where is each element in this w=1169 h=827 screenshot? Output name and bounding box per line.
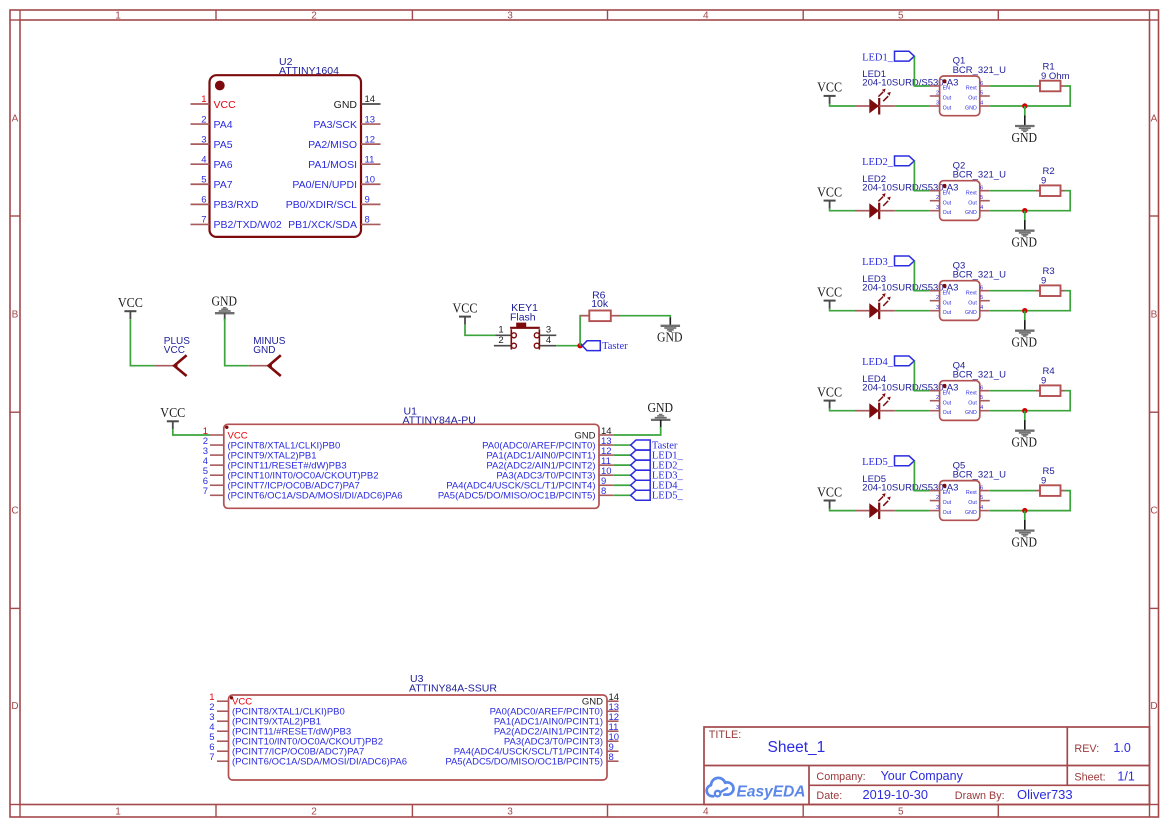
svg-text:2: 2 [311, 10, 317, 21]
IC U1 designator [403, 406, 476, 427]
diode LED1 [855, 89, 895, 115]
wire junction to R6 [580, 316, 589, 346]
U3 pin 7 [209, 752, 407, 768]
net flag LED4_ [631, 480, 684, 491]
junction row 5 [1022, 508, 1027, 513]
svg-text:5: 5 [980, 90, 983, 96]
net flag LED5_ [631, 490, 684, 501]
svg-text:2: 2 [498, 335, 503, 346]
Q4 pin 2 [930, 395, 952, 406]
resistor R2 labels [1041, 166, 1055, 186]
LED3 labels [862, 274, 958, 294]
ruler ticks left and right [10, 216, 1159, 608]
svg-text:D: D [1150, 701, 1157, 712]
svg-text:2: 2 [936, 495, 939, 501]
svg-text:Out: Out [968, 400, 977, 406]
transistor Q4 designator [953, 360, 1006, 380]
Q2 pin 6 Rext [966, 186, 990, 197]
U1 pin 2 [203, 436, 341, 452]
Q4 pin 1 EN [930, 390, 950, 396]
Q2 pin 3 [930, 205, 952, 216]
svg-text:Sheet_1: Sheet_1 [768, 739, 826, 756]
key KEY1 pin 2 [494, 335, 512, 346]
svg-text:7: 7 [201, 215, 206, 226]
svg-text:10: 10 [365, 174, 376, 185]
rev label [1074, 743, 1099, 755]
net flag LED2_ [862, 156, 914, 168]
svg-text:Out: Out [943, 300, 952, 306]
Q5 pin 1 EN [930, 490, 950, 496]
svg-text:2: 2 [936, 295, 939, 301]
power flag GND (MINUS) [211, 293, 237, 313]
key KEY1 pin 3 [539, 324, 556, 335]
svg-text:VCC: VCC [817, 484, 842, 499]
junction row 2 [1022, 208, 1027, 213]
U3 pin 14 [582, 692, 619, 708]
LED1 labels [862, 69, 958, 89]
date label [816, 790, 842, 802]
Q1 pin 4 GND [965, 100, 990, 111]
IC U2 pin-1 mark [215, 81, 225, 91]
U1 pin 11 [486, 456, 613, 472]
svg-text:PA1/MOSI: PA1/MOSI [308, 159, 357, 171]
svg-text:11: 11 [365, 154, 375, 165]
svg-text:Out: Out [943, 210, 952, 216]
wire LED2 to Q2 pin3 [895, 210, 930, 212]
svg-text:GND: GND [965, 210, 977, 216]
date value [863, 787, 928, 802]
IC U1 pin-1 mark [225, 426, 228, 429]
resistor R3 labels [1041, 266, 1055, 286]
svg-text:EN: EN [943, 86, 951, 92]
svg-text:(PCINT6/OC1A/SDA/MOSI/DI/ADC6): (PCINT6/OC1A/SDA/MOSI/DI/ADC6)PA6 [232, 757, 407, 768]
wire U1 to flag Taster [613, 444, 630, 446]
Q1 pin 2 [930, 90, 952, 101]
power flag VCC (row 5) [817, 484, 842, 508]
U1 pin 10 [496, 466, 613, 482]
U3 pin 4 [209, 722, 351, 738]
key KEY1 pin 1 [495, 324, 511, 335]
svg-text:GND: GND [253, 345, 275, 356]
diode LED5 [855, 493, 895, 519]
label PLUS VCC [164, 336, 190, 356]
svg-text:PA2/MISO: PA2/MISO [308, 139, 357, 151]
svg-text:C: C [11, 506, 18, 517]
svg-text:2: 2 [936, 395, 939, 401]
ruler numbers 1-5 [115, 10, 904, 817]
U3 pin 10 [504, 732, 619, 748]
IC U2 designator [279, 56, 339, 77]
svg-text:7: 7 [209, 752, 214, 763]
Q1 pin 1 EN [930, 86, 950, 92]
ground GND (U1) [647, 400, 673, 420]
svg-text:PB3/RXD: PB3/RXD [214, 199, 259, 211]
sheet label [1074, 771, 1105, 783]
wire VCC to LED4 [830, 409, 855, 411]
resistor R1 [1036, 81, 1065, 92]
svg-text:GND: GND [1012, 130, 1038, 145]
resistor R5 [1036, 485, 1065, 496]
svg-text:GND: GND [965, 410, 977, 416]
resistor R4 labels [1041, 366, 1055, 386]
U3 pin 9 [454, 742, 619, 758]
wire VCC to P1 connector [130, 319, 154, 366]
U3 pin 6 [209, 742, 364, 758]
U2 pin 13 PA3/SCK [313, 114, 380, 131]
wire Q4 pin6 to R4 [990, 390, 1036, 392]
power flag VCC (KEY1) [453, 300, 478, 324]
ruler ticks top and bottom [216, 10, 998, 817]
net flag LED1_ [862, 51, 914, 63]
svg-text:2: 2 [311, 807, 317, 818]
wire R3 to Q3 pin4 [990, 291, 1070, 311]
title block frame [704, 727, 1150, 805]
svg-text:PB0/XDIR/SCL: PB0/XDIR/SCL [286, 199, 357, 211]
wire junction to GND row 3 [1024, 311, 1026, 331]
svg-text:Out: Out [943, 96, 952, 102]
IC U1 body [224, 424, 599, 508]
IC U3 pin-1 mark [230, 696, 233, 699]
svg-text:EN: EN [943, 290, 951, 296]
U1 pin 4 [203, 456, 347, 472]
svg-text:VCC: VCC [118, 295, 143, 310]
svg-text:5: 5 [980, 495, 983, 501]
power flag VCC (row 1) [817, 80, 842, 104]
Q2 pin 5 [968, 195, 990, 206]
resistor R5 labels [1041, 466, 1055, 486]
svg-text:PA5(ADC5/DO/MISO/OC1B/PCINT5): PA5(ADC5/DO/MISO/OC1B/PCINT5) [438, 491, 596, 502]
svg-text:1: 1 [498, 324, 503, 335]
U3 pin 8 [445, 752, 618, 768]
Q3 pin 5 [968, 295, 990, 306]
U1 pin 3 [203, 446, 317, 462]
wire R1 to Q1 pin4 [990, 86, 1070, 106]
U1 pin 7 [203, 486, 403, 502]
U1 pin 14 [574, 426, 613, 442]
svg-text:2: 2 [936, 90, 939, 96]
diode LED3 [855, 293, 895, 319]
svg-text:B: B [1151, 310, 1158, 321]
svg-text:Out: Out [943, 500, 952, 506]
Q2 pin 2 [930, 195, 952, 206]
svg-text:Date:: Date: [816, 790, 842, 802]
key KEY1 labels [510, 302, 538, 323]
svg-text:7: 7 [203, 486, 208, 497]
junction at Taster [577, 343, 582, 348]
svg-text:GND: GND [1012, 534, 1038, 549]
svg-text:1: 1 [115, 10, 121, 21]
svg-text:4: 4 [980, 100, 983, 106]
transistor Q5 designator [953, 460, 1006, 480]
net flag LED3_ [631, 470, 684, 481]
wire LED5 to Q5 pin3 [895, 510, 930, 512]
svg-text:5: 5 [980, 295, 983, 301]
svg-text:12: 12 [365, 134, 376, 145]
resistor R6 labels [591, 290, 609, 311]
rev value [1113, 741, 1130, 755]
svg-text:REV:: REV: [1074, 743, 1099, 755]
company value [881, 769, 964, 783]
svg-text:4: 4 [201, 154, 206, 165]
svg-text:GND: GND [1012, 435, 1038, 450]
svg-text:5: 5 [201, 174, 206, 185]
svg-text:GND: GND [647, 400, 673, 415]
key KEY1 pin 4 [539, 335, 556, 346]
Q3 pin 3 [930, 305, 952, 316]
svg-text:5: 5 [898, 10, 904, 21]
svg-text:4: 4 [980, 405, 983, 411]
svg-text:4: 4 [980, 305, 983, 311]
wire U1 to flag LED3_ [613, 474, 630, 476]
svg-text:GND: GND [965, 310, 977, 316]
ground GND (row 5) [1012, 531, 1038, 550]
svg-text:Flash: Flash [510, 312, 536, 324]
wire flag LED5_ to Q5 pin1 [914, 461, 929, 491]
svg-text:Out: Out [943, 105, 952, 111]
Q3 pin 2 [930, 295, 952, 306]
svg-text:Out: Out [968, 96, 977, 102]
power flag VCC (row 2) [817, 184, 842, 208]
Q5 pin 3 [930, 505, 952, 516]
svg-text:3: 3 [507, 807, 513, 818]
transistor Q1 designator [953, 56, 1006, 76]
svg-text:GND: GND [657, 330, 683, 345]
wire R5 to Q5 pin4 [990, 491, 1070, 511]
Q1 pin 5 [968, 90, 990, 101]
svg-text:GND: GND [965, 510, 977, 516]
U2 pin 10 PA0/EN/UPDI [292, 174, 380, 191]
U2 pin 8 PB1/XCK/SDA [288, 215, 380, 232]
wire Q5 pin6 to R5 [990, 490, 1036, 492]
key KEY1 contacts [511, 329, 539, 349]
Q4 pin 3 [930, 405, 952, 416]
wire VCC to LED2 [830, 209, 855, 211]
svg-text:3: 3 [507, 10, 513, 21]
svg-text:BCR_321_U: BCR_321_U [953, 65, 1006, 76]
IC U2 body [210, 75, 362, 237]
svg-text:3: 3 [936, 100, 939, 106]
key KEY1 button bar [510, 323, 540, 328]
svg-text:8: 8 [601, 486, 606, 497]
svg-text:LED3_: LED3_ [862, 257, 894, 268]
company label [816, 771, 865, 783]
svg-text:Company:: Company: [816, 771, 865, 783]
EasyEDA logo [707, 778, 806, 800]
wire VCC to LED5 [830, 509, 855, 511]
wire junction to GND row 5 [1024, 511, 1026, 531]
LED5 labels [862, 474, 958, 494]
U2 pin 1 VCC [191, 94, 237, 111]
wire junction to GND row 4 [1024, 411, 1026, 431]
svg-text:VCC: VCC [817, 80, 842, 95]
svg-text:Rext: Rext [966, 190, 977, 196]
net flag LED3_ [862, 256, 914, 268]
U3 pin 11 [494, 722, 619, 738]
svg-text:PA4: PA4 [214, 119, 233, 131]
U1 pin 1 [203, 426, 248, 442]
wire VCC to LED1 [830, 104, 855, 106]
Q1 pin 3 [930, 100, 952, 111]
wire LED1 to Q1 pin3 [895, 105, 930, 107]
U2 pin 9 PB0/XDIR/SCL [286, 195, 381, 212]
resistor R4 [1036, 385, 1065, 396]
IC U3 designator [409, 673, 497, 694]
svg-text:EN: EN [943, 390, 951, 396]
Q3 pin 6 Rext [966, 286, 990, 297]
svg-text:Taster: Taster [602, 341, 628, 352]
wire R6 to GND [620, 316, 670, 326]
U2 pin 6 PB3/RXD [191, 195, 259, 212]
Q4 pin 4 GND [965, 405, 990, 416]
ground GND (row 1) [1012, 126, 1038, 145]
svg-text:3: 3 [936, 305, 939, 311]
svg-text:5: 5 [980, 395, 983, 401]
svg-text:VCC: VCC [160, 405, 185, 420]
svg-text:GND: GND [334, 99, 358, 111]
svg-text:1: 1 [201, 94, 206, 105]
svg-text:VCC: VCC [164, 345, 185, 356]
diode LED4 [855, 393, 895, 419]
power flag VCC (PLUS) [118, 295, 143, 319]
Q3 pin 1 EN [930, 290, 950, 296]
svg-text:6: 6 [980, 286, 983, 292]
svg-text:GND: GND [1012, 235, 1038, 250]
diode LED2 [855, 193, 895, 219]
connector PLUS Y-symbol [174, 355, 186, 376]
U3 pin 12 [494, 712, 619, 728]
resistor R1 labels [1041, 61, 1070, 81]
svg-text:Out: Out [943, 200, 952, 206]
svg-text:14: 14 [365, 94, 376, 105]
svg-text:Out: Out [943, 410, 952, 416]
Q1 pin 6 Rext [966, 81, 990, 92]
svg-text:A: A [12, 114, 19, 125]
U2 pin 3 PA5 [191, 134, 233, 151]
svg-text:EasyEDA: EasyEDA [737, 783, 806, 800]
svg-text:EN: EN [943, 490, 951, 496]
U3 pin 3 [209, 712, 321, 728]
wire flag LED3_ to Q3 pin1 [914, 261, 929, 291]
svg-text:ATTINY84A-SSUR: ATTINY84A-SSUR [409, 682, 497, 694]
wire flag LED1_ to Q1 pin1 [914, 57, 929, 87]
svg-text:LED4_: LED4_ [862, 357, 894, 368]
U1 pin 12 [486, 446, 613, 462]
svg-text:GND: GND [1012, 335, 1038, 350]
svg-text:PA6: PA6 [214, 159, 233, 171]
wire VCC to KEY1 pin1 [465, 325, 495, 336]
ground GND (row 4) [1012, 431, 1038, 450]
Q5 pin 5 [968, 495, 990, 506]
svg-text:VCC: VCC [817, 184, 842, 199]
svg-text:6: 6 [201, 195, 206, 206]
power flag VCC (row 3) [817, 284, 842, 308]
svg-text:BCR_321_U: BCR_321_U [953, 469, 1006, 480]
wire Q3 pin6 to R3 [990, 290, 1036, 292]
ground GND (R6) [657, 326, 683, 345]
wire flag LED4_ to Q4 pin1 [914, 361, 929, 391]
Q5 pin 2 [930, 495, 952, 506]
svg-text:3: 3 [936, 405, 939, 411]
connector pin PLUS [155, 365, 175, 367]
svg-text:Out: Out [968, 500, 977, 506]
svg-text:6: 6 [980, 386, 983, 392]
svg-text:Rext: Rext [966, 490, 977, 496]
svg-text:PA3/SCK: PA3/SCK [313, 119, 357, 131]
svg-text:VCC: VCC [817, 284, 842, 299]
junction row 4 [1022, 408, 1027, 413]
ground GND (row 3) [1012, 331, 1038, 350]
svg-text:13: 13 [365, 114, 376, 125]
svg-text:3: 3 [546, 324, 551, 335]
U2 pin 4 PA6 [191, 154, 233, 171]
transistor Q3 body [940, 281, 980, 321]
svg-text:Out: Out [943, 400, 952, 406]
title label [709, 729, 741, 741]
net flag Taster [582, 341, 628, 352]
svg-text:Out: Out [968, 300, 977, 306]
svg-text:8: 8 [609, 752, 614, 763]
svg-text:VCC: VCC [817, 384, 842, 399]
svg-text:VCC: VCC [214, 99, 237, 111]
connector MINUS Y-symbol [269, 355, 281, 376]
svg-text:Your Company: Your Company [881, 769, 964, 783]
net flag LED4_ [862, 356, 914, 368]
svg-text:1.0: 1.0 [1113, 741, 1130, 755]
svg-text:3: 3 [936, 205, 939, 211]
svg-text:4: 4 [980, 205, 983, 211]
svg-text:5: 5 [980, 195, 983, 201]
svg-text:9: 9 [365, 195, 370, 206]
svg-text:Sheet:: Sheet: [1074, 771, 1105, 783]
Q5 pin 4 GND [965, 505, 990, 516]
svg-text:4: 4 [546, 335, 551, 346]
net flag LED1_ [631, 450, 684, 461]
svg-text:Out: Out [968, 200, 977, 206]
U3 pin 2 [209, 702, 345, 718]
U2 pin 2 PA4 [191, 114, 233, 131]
transistor Q1 body [940, 76, 980, 116]
svg-text:BCR_321_U: BCR_321_U [953, 370, 1006, 381]
svg-text:Drawn By:: Drawn By: [955, 790, 1005, 802]
svg-text:LED1_: LED1_ [862, 52, 894, 63]
svg-text:LED2_: LED2_ [862, 157, 894, 168]
transistor Q2 body [940, 181, 980, 221]
wire Q2 pin6 to R2 [990, 190, 1036, 192]
svg-text:BCR_321_U: BCR_321_U [953, 270, 1006, 281]
Q4 pin 5 [968, 395, 990, 406]
svg-text:Rext: Rext [966, 390, 977, 396]
Q4 pin 6 Rext [966, 386, 990, 397]
U3 pin 1 [209, 692, 252, 708]
ruler letters A-D [11, 114, 1157, 713]
svg-text:6: 6 [980, 485, 983, 491]
svg-text:PA7: PA7 [214, 179, 233, 191]
transistor Q5 body [940, 481, 980, 521]
U1 pin 8 [438, 486, 613, 502]
svg-text:D: D [11, 701, 18, 712]
svg-text:5: 5 [898, 807, 904, 818]
svg-text:8: 8 [365, 215, 370, 226]
wire VCC to LED3 [830, 309, 855, 311]
Q5 pin 6 Rext [966, 485, 990, 496]
U3 pin 13 [490, 702, 619, 718]
transistor Q3 designator [953, 260, 1006, 280]
U2 pin 12 PA2/MISO [308, 134, 380, 151]
svg-text:Out: Out [943, 310, 952, 316]
svg-text:2: 2 [936, 195, 939, 201]
svg-text:1: 1 [115, 807, 121, 818]
svg-text:TITLE:: TITLE: [709, 729, 741, 741]
